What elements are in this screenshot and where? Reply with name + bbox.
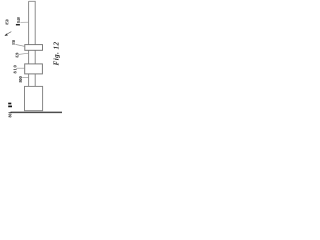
double dash mark near 810 bottom-left: [8, 104, 12, 107]
svg-text:Fig. 12: Fig. 12: [52, 42, 60, 66]
leader 840: [20, 21, 28, 23]
narrow column segment 1 (top tube): [29, 1, 36, 44]
svg-text:820: 820: [14, 53, 19, 58]
ground line: [11, 111, 64, 113]
leader 800: [22, 76, 28, 78]
svg-text:850: 850: [5, 19, 10, 24]
svg-text:840: 840: [16, 16, 21, 23]
leader 820: [19, 53, 29, 54]
svg-text:810: 810: [13, 64, 18, 73]
crossbar box (upper flange): [25, 45, 43, 51]
svg-text:830: 830: [11, 40, 16, 45]
narrow column segment 3 (between middle box and big box): [29, 74, 36, 87]
background: [0, 0, 62, 120]
big bottom box: [25, 86, 43, 110]
middle box: [25, 64, 43, 74]
leader 810: [16, 67, 24, 69]
leader 830: [15, 44, 24, 46]
svg-text:801: 801: [7, 112, 12, 118]
arrow for 850: [5, 32, 12, 36]
narrow column segment 2 (between bar and middle box): [29, 50, 36, 64]
dash under 840: [16, 24, 20, 26]
